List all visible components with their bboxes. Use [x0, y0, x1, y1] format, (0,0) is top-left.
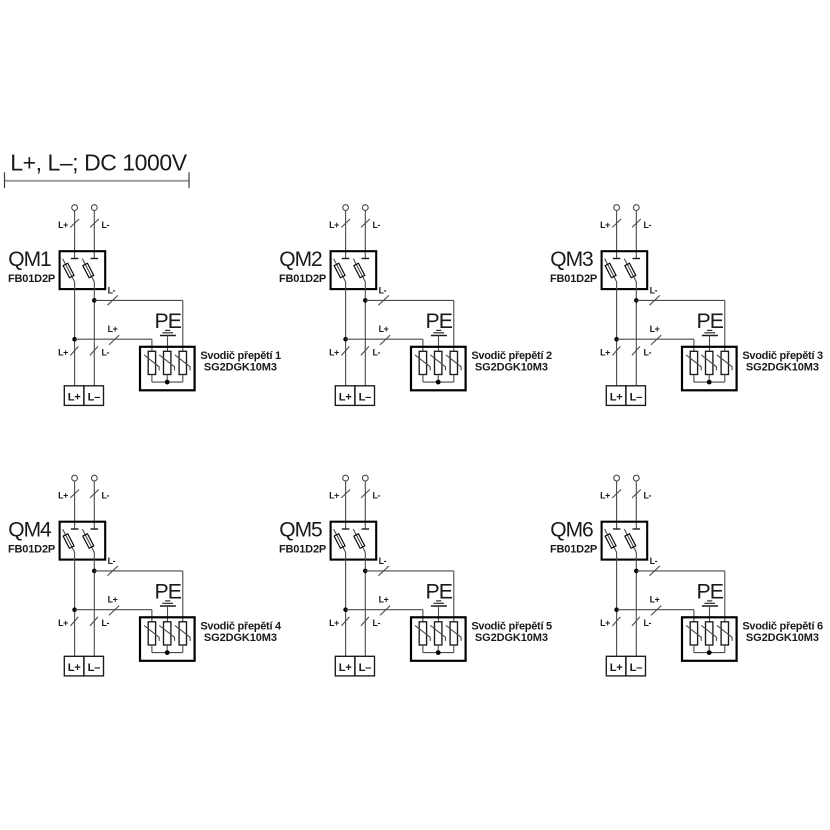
svg-text:L–: L–	[630, 662, 642, 674]
svg-text:FB01D2P: FB01D2P	[550, 543, 597, 555]
terminal block L- of circuit 5	[355, 656, 375, 676]
svg-text:L+: L+	[58, 347, 68, 357]
QM1 pole L+ fixed contact bar	[71, 258, 79, 260]
svg-text:L-: L-	[108, 286, 116, 296]
wire L+ terminal to QM2	[345, 210, 347, 258]
SPD2 varistor 2 body	[435, 351, 442, 374]
terminal L+ of QM1	[72, 205, 78, 211]
SPD4 common junction node	[165, 650, 170, 655]
terminal L+ of QM2	[343, 205, 349, 211]
QM1 pole L+ switch blade	[63, 259, 75, 282]
fuse-disconnector QM4 box	[60, 522, 106, 560]
svg-text:L+: L+	[329, 220, 339, 230]
junction node L- of QM1	[92, 298, 97, 303]
svg-text:PE: PE	[154, 579, 181, 603]
svg-text:L+: L+	[610, 391, 623, 403]
QM2 pole L- switch blade	[353, 259, 365, 282]
svg-text:Svodič přepětí 1: Svodič přepětí 1	[200, 350, 281, 362]
QM6 pole L+ switch blade	[605, 529, 617, 552]
SPD6 varistor 3 body	[721, 622, 728, 645]
SPD2 varistor 3 bottom lead	[453, 375, 455, 383]
SPD1 varistor 3 body	[179, 351, 186, 374]
conductor slash on L- branch of QM1	[108, 295, 118, 305]
terminal block L- of circuit 3	[626, 386, 646, 406]
svg-text:L-: L-	[644, 490, 652, 500]
SPD5 common bottom bus wire	[423, 652, 454, 654]
QM1 pole L- fixed contact bar	[91, 258, 99, 260]
svg-text:L+, L–; DC 1000V: L+, L–; DC 1000V	[10, 150, 187, 176]
SPD4 common bottom bus wire	[152, 652, 183, 654]
terminal L- of QM5	[362, 475, 368, 481]
title underline left tick	[4, 172, 6, 188]
title underline right tick	[188, 172, 190, 188]
wire L+ branch horizontal of QM3	[617, 338, 694, 340]
QM3 pole L+ fuse body	[605, 263, 616, 277]
svg-text:Svodič přepětí 3: Svodič přepětí 3	[742, 350, 823, 362]
SPD4 varistor 1 body	[148, 622, 155, 645]
svg-text:SG2DGK10M3: SG2DGK10M3	[475, 632, 548, 644]
SPD5 varistor 1 bottom lead	[422, 645, 424, 653]
title underline bus	[5, 180, 190, 182]
conductor slash L- output of QM4	[90, 617, 98, 626]
conductor slash on L+ branch of QM4	[109, 606, 119, 616]
SPD3 varistor 3 diagonal stroke	[717, 355, 732, 371]
conductor slash L- above QM4	[90, 490, 99, 498]
SPD5 varistor 3 bottom lead	[453, 645, 455, 653]
QM5 pole L+ fuse body	[334, 534, 345, 548]
SPD3 varistor 3 bottom lead	[724, 375, 726, 383]
svg-text:L-: L-	[102, 347, 110, 357]
svg-text:SG2DGK10M3: SG2DGK10M3	[204, 362, 277, 374]
SPD6 varistor 2 body	[706, 622, 713, 645]
wire L+ branch horizontal of QM5	[346, 609, 423, 611]
SPD5 varistor 1 body	[419, 622, 426, 645]
svg-text:L+: L+	[68, 662, 81, 674]
conductor slash on L+ branch of QM6	[651, 606, 661, 616]
SPD3 varistor 1 diagonal stroke	[686, 355, 701, 371]
SPD1 varistor 3 diagonal stroke	[175, 355, 190, 371]
svg-text:L-: L-	[650, 286, 658, 296]
fuse-disconnector QM2 box	[331, 251, 377, 289]
terminal L- of QM1	[91, 205, 97, 211]
svg-text:L+: L+	[600, 347, 610, 357]
conductor slash L+ output of QM6	[612, 617, 620, 626]
surge protector SPD6 box	[682, 617, 737, 661]
SPD3 varistor 1 body	[690, 351, 697, 374]
wire L- branch horizontal of QM5	[365, 570, 454, 572]
svg-text:L-: L-	[644, 220, 652, 230]
conductor slash L- output of QM5	[361, 617, 369, 626]
SPD6 common junction node	[707, 650, 712, 655]
conductor slash L- output of QM3	[632, 346, 640, 355]
SPD1 common junction node	[165, 380, 170, 385]
conductor slash on L+ branch of QM1	[109, 335, 119, 345]
svg-text:L+: L+	[58, 618, 68, 628]
SPD2 common bottom bus wire	[423, 381, 454, 383]
wire L- below QM2 to terminal block	[364, 282, 366, 386]
wire L- terminal to QM5	[364, 481, 366, 529]
SPD6 varistor 2 diagonal stroke	[701, 625, 716, 641]
terminal block L+ of circuit 4	[64, 656, 84, 676]
QM2 pole L+ fuse body	[334, 263, 345, 277]
wire PE to SPD of circuit 4	[167, 606, 169, 622]
conductor slash on L- branch of QM4	[108, 566, 118, 576]
QM6 pole L- switch blade	[624, 529, 636, 552]
QM6 pole L- fuse body	[625, 534, 636, 548]
svg-text:L-: L-	[108, 556, 116, 566]
wire L+ branch vertical into SPD of QM3	[693, 339, 695, 351]
SPD2 varistor 3 body	[450, 351, 457, 374]
SPD6 varistor 1 diagonal stroke	[686, 625, 701, 641]
QM3 pole L+ fixed contact bar	[613, 258, 621, 260]
wire L+ branch horizontal of QM4	[75, 609, 152, 611]
svg-text:Svodič přepětí 2: Svodič přepětí 2	[471, 350, 552, 362]
wire L- branch horizontal of QM4	[94, 570, 183, 572]
wire L+ branch horizontal of QM6	[617, 609, 694, 611]
SPD6 varistor 1 body	[690, 622, 697, 645]
conductor slash L+ output of QM3	[612, 346, 620, 355]
wire L- below QM3 to terminal block	[635, 282, 637, 386]
fuse-disconnector QM6 box	[602, 522, 648, 560]
SPD3 common bottom bus wire	[694, 381, 725, 383]
svg-text:L-: L-	[379, 286, 387, 296]
svg-text:L–: L–	[359, 662, 371, 674]
svg-text:L-: L-	[650, 556, 658, 566]
QM1 pole L- fuse body	[83, 263, 94, 277]
SPD3 varistor 1 bottom lead	[693, 375, 695, 383]
svg-text:L+: L+	[650, 324, 660, 334]
ground symbol PE of circuit 5	[431, 601, 447, 606]
svg-text:L+: L+	[58, 220, 68, 230]
QM6 pole L- fixed contact bar	[633, 528, 641, 530]
conductor slash on L+ branch of QM3	[651, 335, 661, 345]
SPD1 varistor 2 diagonal stroke	[159, 355, 174, 371]
wire L- branch vertical into SPD of QM4	[182, 571, 184, 622]
wire L+ branch vertical into SPD of QM1	[151, 339, 153, 351]
QM3 pole L- fixed contact bar	[633, 258, 641, 260]
surge protector SPD3 box	[682, 347, 737, 391]
svg-text:L+: L+	[600, 618, 610, 628]
svg-text:Svodič přepětí 6: Svodič přepětí 6	[742, 620, 823, 632]
wire PE to SPD of circuit 5	[438, 606, 440, 622]
conductor slash on L- branch of QM5	[379, 566, 389, 576]
wire L- branch horizontal of QM3	[636, 299, 725, 301]
terminal L- of QM2	[362, 205, 368, 211]
svg-text:FB01D2P: FB01D2P	[8, 543, 55, 555]
QM2 pole L- fuse body	[354, 263, 365, 277]
SPD2 varistor 3 diagonal stroke	[446, 355, 461, 371]
wire L- branch vertical into SPD of QM1	[182, 300, 184, 351]
SPD4 varistor 3 diagonal stroke	[175, 625, 190, 641]
wire L- branch horizontal of QM2	[365, 299, 454, 301]
terminal block L+ of circuit 3	[606, 386, 626, 406]
terminal block L- of circuit 1	[84, 386, 104, 406]
terminal L+ of QM4	[72, 475, 78, 481]
svg-text:L-: L-	[644, 618, 652, 628]
junction node L+ of QM2	[343, 337, 348, 342]
svg-text:L+: L+	[600, 490, 610, 500]
wire L- terminal to QM3	[635, 210, 637, 258]
svg-text:L+: L+	[379, 595, 389, 605]
QM5 pole L- switch blade	[353, 529, 365, 552]
svg-text:QM1: QM1	[8, 248, 51, 271]
svg-text:PE: PE	[696, 309, 723, 333]
conductor slash L+ output of QM1	[70, 346, 78, 355]
svg-text:L-: L-	[102, 490, 110, 500]
junction node L- of QM4	[92, 569, 97, 574]
svg-text:SG2DGK10M3: SG2DGK10M3	[746, 632, 819, 644]
wire L- below QM5 to terminal block	[364, 552, 366, 656]
wire L- terminal to QM1	[93, 210, 95, 258]
wire L- branch horizontal of QM1	[94, 299, 183, 301]
svg-text:PE: PE	[425, 309, 452, 333]
terminal L- of QM3	[633, 205, 639, 211]
terminal block L+ of circuit 1	[64, 386, 84, 406]
wire L- branch horizontal of QM6	[636, 570, 725, 572]
QM6 pole L+ fixed contact bar	[613, 528, 621, 530]
conductor slash L+ output of QM4	[70, 617, 78, 626]
conductor slash L+ above QM5	[341, 490, 350, 498]
terminal block L+ of circuit 2	[335, 386, 355, 406]
svg-text:L-: L-	[373, 220, 381, 230]
svg-text:QM5: QM5	[279, 519, 322, 542]
terminal block L- of circuit 2	[355, 386, 375, 406]
SPD1 common bottom bus wire	[152, 381, 183, 383]
terminal L+ of QM6	[614, 475, 620, 481]
ground symbol PE of circuit 1	[160, 330, 176, 335]
conductor slash L+ above QM1	[70, 219, 79, 227]
SPD1 varistor 1 diagonal stroke	[144, 355, 159, 371]
svg-text:PE: PE	[154, 309, 181, 333]
svg-text:Svodič přepětí 4: Svodič přepětí 4	[200, 620, 282, 632]
QM3 pole L+ switch blade	[605, 259, 617, 282]
wire L+ branch vertical into SPD of QM5	[422, 610, 424, 622]
svg-text:L-: L-	[373, 618, 381, 628]
QM4 pole L- switch blade	[82, 529, 94, 552]
svg-text:Svodič přepětí 5: Svodič přepětí 5	[471, 620, 552, 632]
svg-text:L–: L–	[630, 391, 642, 403]
conductor slash L- above QM5	[361, 490, 370, 498]
SPD3 varistor 2 diagonal stroke	[701, 355, 716, 371]
svg-text:QM2: QM2	[279, 248, 322, 271]
junction node L+ of QM1	[72, 337, 77, 342]
wire L- branch vertical into SPD of QM5	[453, 571, 455, 622]
svg-text:FB01D2P: FB01D2P	[279, 543, 326, 555]
terminal block L- of circuit 4	[84, 656, 104, 676]
terminal block L+ of circuit 6	[606, 656, 626, 676]
svg-text:PE: PE	[696, 579, 723, 603]
SPD4 varistor 1 diagonal stroke	[144, 625, 159, 641]
svg-text:L-: L-	[644, 347, 652, 357]
svg-text:L+: L+	[379, 324, 389, 334]
wire PE to SPD of circuit 6	[709, 606, 711, 622]
svg-text:L+: L+	[329, 347, 339, 357]
junction node L+ of QM6	[614, 607, 619, 612]
SPD4 varistor 3 bottom lead	[182, 645, 184, 653]
conductor slash L- output of QM1	[90, 346, 98, 355]
wire PE to SPD of circuit 3	[709, 336, 711, 352]
svg-text:L+: L+	[339, 662, 352, 674]
terminal L- of QM6	[633, 475, 639, 481]
SPD3 common junction node	[707, 380, 712, 385]
svg-text:L–: L–	[88, 662, 100, 674]
SPD1 varistor 2 body	[164, 351, 171, 374]
SPD3 varistor 2 bottom lead	[708, 375, 710, 383]
svg-text:L-: L-	[373, 490, 381, 500]
wire L+ below QM6 to terminal block	[616, 552, 618, 656]
junction node L- of QM6	[634, 569, 639, 574]
SPD6 varistor 3 bottom lead	[724, 645, 726, 653]
QM2 pole L+ fixed contact bar	[342, 258, 350, 260]
wire L+ terminal to QM3	[616, 210, 618, 258]
junction node L+ of QM3	[614, 337, 619, 342]
conductor slash L- output of QM6	[632, 617, 640, 626]
fuse-disconnector QM1 box	[60, 251, 106, 289]
svg-text:L+: L+	[650, 595, 660, 605]
QM5 pole L- fuse body	[354, 534, 365, 548]
surge protector SPD5 box	[411, 617, 466, 661]
svg-text:L+: L+	[329, 618, 339, 628]
QM6 pole L+ fuse body	[605, 534, 616, 548]
terminal L- of QM4	[91, 475, 97, 481]
conductor slash L- above QM1	[90, 219, 99, 227]
svg-text:FB01D2P: FB01D2P	[550, 273, 597, 285]
wire L+ terminal to QM4	[74, 481, 76, 529]
conductor slash L+ above QM6	[612, 490, 621, 498]
SPD2 varistor 1 diagonal stroke	[415, 355, 430, 371]
junction node L- of QM5	[363, 569, 368, 574]
SPD1 varistor 1 body	[148, 351, 155, 374]
QM4 pole L- fuse body	[83, 534, 94, 548]
terminal block L- of circuit 6	[626, 656, 646, 676]
conductor slash L- above QM3	[632, 219, 641, 227]
SPD6 varistor 3 diagonal stroke	[717, 625, 732, 641]
junction node L- of QM3	[634, 298, 639, 303]
svg-text:L-: L-	[379, 556, 387, 566]
SPD6 varistor 1 bottom lead	[693, 645, 695, 653]
surge protector SPD2 box	[411, 347, 466, 391]
SPD2 varistor 2 bottom lead	[437, 375, 439, 383]
wire L+ below QM4 to terminal block	[74, 552, 76, 656]
SPD2 varistor 1 bottom lead	[422, 375, 424, 383]
conductor slash L+ above QM4	[70, 490, 79, 498]
QM5 pole L- fixed contact bar	[362, 528, 370, 530]
wire L+ branch vertical into SPD of QM2	[422, 339, 424, 351]
svg-text:SG2DGK10M3: SG2DGK10M3	[475, 362, 548, 374]
wire L+ branch vertical into SPD of QM4	[151, 610, 153, 622]
wire L+ below QM2 to terminal block	[345, 282, 347, 386]
svg-text:L-: L-	[102, 618, 110, 628]
junction node L- of QM2	[363, 298, 368, 303]
wire L+ branch horizontal of QM1	[75, 338, 152, 340]
ground symbol PE of circuit 2	[431, 330, 447, 335]
svg-text:L+: L+	[108, 595, 118, 605]
wire L+ below QM1 to terminal block	[74, 282, 76, 386]
ground symbol PE of circuit 3	[702, 330, 718, 335]
QM5 pole L+ switch blade	[334, 529, 346, 552]
ground symbol PE of circuit 6	[702, 601, 718, 606]
svg-text:PE: PE	[425, 579, 452, 603]
conductor slash on L+ branch of QM5	[380, 606, 390, 616]
wire L+ terminal to QM1	[74, 210, 76, 258]
QM3 pole L- switch blade	[624, 259, 636, 282]
QM4 pole L+ switch blade	[63, 529, 75, 552]
QM2 pole L- fixed contact bar	[362, 258, 370, 260]
SPD2 common junction node	[436, 380, 441, 385]
SPD4 varistor 1 bottom lead	[151, 645, 153, 653]
SPD5 common junction node	[436, 650, 441, 655]
conductor slash on L- branch of QM2	[379, 295, 389, 305]
SPD2 varistor 1 body	[419, 351, 426, 374]
surge protector SPD1 box	[140, 347, 195, 391]
SPD2 varistor 2 diagonal stroke	[430, 355, 445, 371]
SPD3 varistor 3 body	[721, 351, 728, 374]
junction node L+ of QM4	[72, 607, 77, 612]
QM5 pole L+ fixed contact bar	[342, 528, 350, 530]
wire L+ below QM3 to terminal block	[616, 282, 618, 386]
ground symbol PE of circuit 4	[160, 601, 176, 606]
SPD5 varistor 1 diagonal stroke	[415, 625, 430, 641]
svg-text:SG2DGK10M3: SG2DGK10M3	[746, 362, 819, 374]
SPD5 varistor 2 bottom lead	[437, 645, 439, 653]
conductor slash L+ output of QM2	[341, 346, 349, 355]
svg-text:L+: L+	[68, 391, 81, 403]
wire L- terminal to QM4	[93, 481, 95, 529]
SPD6 common bottom bus wire	[694, 652, 725, 654]
svg-text:L–: L–	[88, 391, 100, 403]
svg-text:L+: L+	[600, 220, 610, 230]
SPD5 varistor 3 diagonal stroke	[446, 625, 461, 641]
svg-text:QM3: QM3	[550, 248, 593, 271]
wire L- terminal to QM2	[364, 210, 366, 258]
SPD1 varistor 2 bottom lead	[166, 375, 168, 383]
conductor slash on L- branch of QM6	[650, 566, 660, 576]
QM4 pole L+ fixed contact bar	[71, 528, 79, 530]
wire L- terminal to QM6	[635, 481, 637, 529]
svg-text:L+: L+	[58, 490, 68, 500]
wire L- below QM1 to terminal block	[93, 282, 95, 386]
svg-text:L+: L+	[329, 490, 339, 500]
wire L- branch vertical into SPD of QM3	[724, 300, 726, 351]
terminal block L+ of circuit 5	[335, 656, 355, 676]
svg-text:L+: L+	[108, 324, 118, 334]
SPD1 varistor 1 bottom lead	[151, 375, 153, 383]
svg-text:QM4: QM4	[8, 519, 52, 542]
conductor slash L- output of QM2	[361, 346, 369, 355]
terminal L+ of QM5	[343, 475, 349, 481]
QM4 pole L+ fuse body	[63, 534, 74, 548]
QM2 pole L+ switch blade	[334, 259, 346, 282]
conductor slash L+ above QM3	[612, 219, 621, 227]
wire L- below QM4 to terminal block	[93, 552, 95, 656]
SPD4 varistor 2 body	[164, 622, 171, 645]
QM3 pole L- fuse body	[625, 263, 636, 277]
SPD3 varistor 2 body	[706, 351, 713, 374]
SPD6 varistor 2 bottom lead	[708, 645, 710, 653]
conductor slash L+ above QM2	[341, 219, 350, 227]
junction node L+ of QM5	[343, 607, 348, 612]
conductor slash L- above QM6	[632, 490, 641, 498]
conductor slash on L+ branch of QM2	[380, 335, 390, 345]
SPD4 varistor 3 body	[179, 622, 186, 645]
wire L+ branch vertical into SPD of QM6	[693, 610, 695, 622]
conductor slash on L- branch of QM3	[650, 295, 660, 305]
wire L+ terminal to QM6	[616, 481, 618, 529]
svg-text:QM6: QM6	[550, 519, 593, 542]
svg-text:L-: L-	[102, 220, 110, 230]
QM1 pole L- switch blade	[82, 259, 94, 282]
fuse-disconnector QM5 box	[331, 522, 377, 560]
